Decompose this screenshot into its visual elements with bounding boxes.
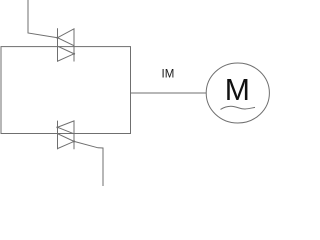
wire to motor (131, 92, 207, 94)
motor M (206, 63, 269, 123)
gate wire (top) (28, 0, 58, 38)
svg-text:IM: IM (162, 69, 175, 81)
top triac (56, 28, 75, 61)
gate wire (bottom) (74, 141, 103, 186)
svg-text:M: M (225, 74, 250, 107)
control unit box (1, 47, 131, 134)
bottom triac (56, 121, 75, 150)
